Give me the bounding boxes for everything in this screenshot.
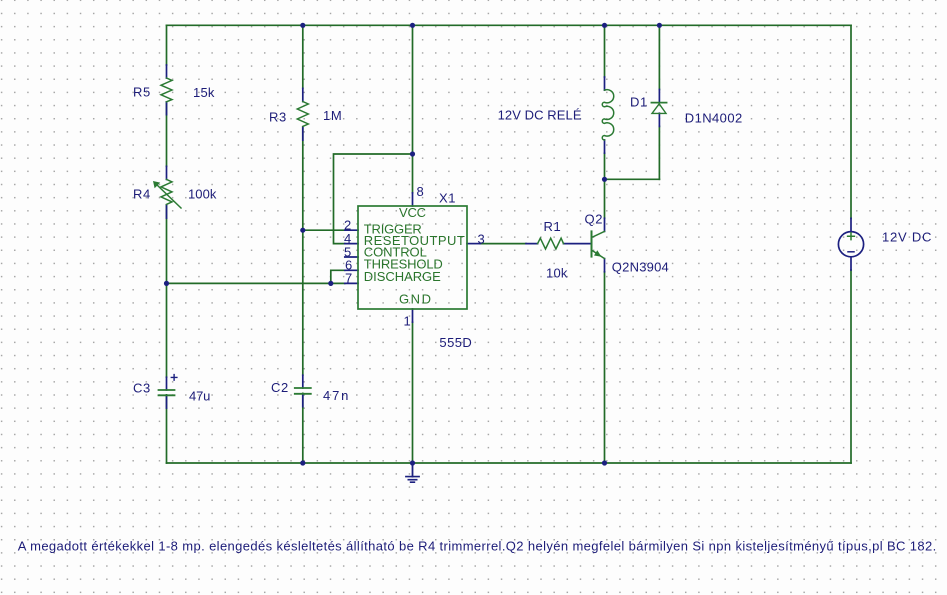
svg-text:47n: 47n — [323, 388, 349, 403]
pin stubs navy: R5 pins — [166, 65, 168, 115]
wire discharge pin7 — [331, 282, 345, 284]
resistor R1 body — [538, 238, 564, 249]
svg-text:3: 3 — [478, 232, 486, 247]
wire trigger pin2 — [303, 229, 345, 231]
svg-text:12V DC RELÉ: 12V DC RELÉ — [498, 108, 582, 123]
svg-text:R4: R4 — [133, 187, 151, 202]
pin stubs navy: Q2 collector and emitter pins — [604, 218, 606, 272]
pin stubs navy: 555 pin 3 output — [467, 243, 480, 245]
resistor R4 trimmer arrow — [156, 184, 182, 209]
svg-text:15k: 15k — [193, 85, 215, 100]
op-amp/IC 555 box X1 — [358, 206, 467, 309]
svg-text:10k: 10k — [546, 266, 568, 281]
svg-text:C2: C2 — [271, 380, 289, 395]
transistor Q2 base bar — [591, 231, 593, 256]
svg-text:R1: R1 — [544, 219, 562, 234]
wire threshold pin6 tie — [331, 270, 345, 283]
12V DC source plus — [848, 233, 855, 240]
wire R3/C2 branch vertical — [302, 25, 304, 463]
diode D1 triangle — [652, 104, 666, 114]
wire VCC vertical to pin 8 — [412, 25, 414, 193]
capacitor C3 plates — [159, 390, 175, 395]
svg-text:100k: 100k — [188, 187, 217, 202]
12V DC source minus — [848, 251, 854, 253]
wire R4 bottom to discharge horizontal — [167, 282, 331, 284]
pin stubs navy: 555 pin 8 and pin 1 — [412, 193, 414, 322]
svg-text:8: 8 — [417, 184, 425, 199]
wire GND pin 1 to bottom bus — [412, 322, 414, 463]
wire right branch 12V source — [850, 25, 852, 463]
wire bottom horizontal bus — [167, 462, 852, 464]
wire relay junction to Q2 collector — [604, 179, 606, 218]
node junction dot (412.5,154) — [410, 151, 415, 156]
svg-text:D1: D1 — [630, 95, 648, 110]
12V DC source circle — [838, 232, 863, 257]
node junction dot (604.5,179.3) — [602, 177, 607, 182]
capacitor C3 plus sign — [171, 375, 177, 381]
svg-text:VCC: VCC — [399, 205, 426, 220]
pin stubs navy: C3 pins — [166, 377, 168, 408]
pin stubs navy: 12V source pins — [850, 218, 852, 270]
svg-text:555D: 555D — [439, 335, 472, 350]
node junction dot (604.5,25.3) — [602, 23, 607, 28]
wire output to R1 — [480, 243, 526, 245]
svg-text:DISCHARGE: DISCHARGE — [364, 269, 441, 284]
wire relay branch vertical — [604, 25, 606, 179]
node junction dot (166.5,283.4) — [164, 281, 169, 286]
pin stubs navy: diode pins — [658, 90, 660, 127]
transistor Q2 collector diagonal — [592, 231, 605, 237]
svg-text:D1N4002: D1N4002 — [685, 111, 743, 126]
node junction dot (604.5,463) — [602, 460, 607, 465]
wire diode branch vertical — [658, 25, 660, 179]
node junction dot (330.8,283.4) — [328, 281, 333, 286]
node junction dot (302.8,463) — [300, 460, 305, 465]
svg-text:Q2N3904: Q2N3904 — [612, 260, 670, 275]
svg-text:R5: R5 — [133, 85, 151, 100]
svg-text:1M: 1M — [323, 108, 342, 123]
pin stubs navy: relay coil pins — [604, 77, 606, 153]
transistor Q2 emitter arrow — [594, 250, 602, 256]
transistor Q2 emitter diagonal — [592, 250, 605, 259]
wire reset-to-vcc L shape — [334, 154, 413, 244]
resistor R3 body — [297, 102, 308, 127]
wire Q2 emitter to bottom bus — [604, 272, 606, 463]
svg-text:R3: R3 — [269, 110, 287, 125]
svg-text:Q2: Q2 — [585, 212, 604, 227]
svg-text:12V DC: 12V DC — [882, 230, 932, 245]
svg-text:C3: C3 — [133, 381, 151, 396]
node junction dot (302.8,25.3) — [300, 23, 305, 28]
resistor R4 body (trimmer) — [161, 179, 172, 204]
svg-text:X1: X1 — [439, 191, 456, 206]
node junction dot (412.5,463) — [410, 460, 415, 465]
pin stubs navy: C2 pins — [302, 375, 304, 406]
wire relay bottom horizontal to diode — [605, 178, 660, 180]
diode D1 cathode bar — [651, 102, 666, 104]
capacitor C2 plates — [295, 388, 311, 394]
svg-text:1: 1 — [404, 314, 412, 329]
node junction dot (302.8,230.2) — [300, 228, 305, 233]
resistor R5 body — [161, 78, 172, 102]
relay coil L body — [602, 90, 613, 140]
node junction dot (659.4,25.3) — [657, 23, 662, 28]
node junction dot (412.5,25.3) — [410, 23, 415, 28]
pin stubs navy: 555 left pins 2,4,5,6,7 — [345, 230, 358, 283]
svg-text:A megadott értékekkel 1-8 mp.: A megadott értékekkel 1-8 mp. elengedés … — [18, 538, 937, 553]
ground symbol — [412, 463, 414, 477]
svg-text:7: 7 — [345, 271, 353, 286]
wire top horizontal bus — [167, 24, 852, 26]
svg-text:47u: 47u — [189, 389, 211, 404]
svg-text:GND: GND — [399, 292, 431, 307]
pin stubs navy: R3 pins — [302, 88, 304, 140]
pin stubs navy: R4 pins — [166, 166, 168, 218]
pin stubs navy: R1 pins and Q2 base — [526, 243, 592, 245]
wire left branch vertical (R5/R4/C3 column) — [166, 25, 168, 463]
